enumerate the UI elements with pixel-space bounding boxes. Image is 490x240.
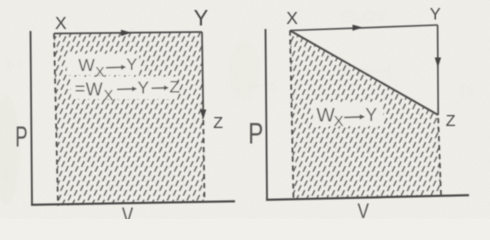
wire: path X to Y (right top edge) (290, 25, 438, 31)
value label W_X->Y (right) (316, 105, 377, 131)
arrow on Y to Z (left) (200, 110, 206, 120)
value label =W_X->Y->Z (left, line 2) (75, 77, 180, 104)
hatched area (right, under diagonal) (290, 31, 441, 199)
label halo (right) (313, 102, 383, 126)
hatched area (left rectangle) (54, 32, 205, 206)
label halo line 1 (left) (67, 54, 139, 75)
wire: dashed drop below Z (left) (203, 120, 204, 202)
label halo line 2 (left) (71, 77, 177, 99)
wire: dashed drop below Z (right) (438, 118, 441, 196)
wire: process Y to Z (left right edge, solid) (202, 32, 203, 117)
wire: dashed isochor X down (left rectangle left edge) (54, 34, 58, 206)
ghost bleed-through text (4, 7, 474, 183)
paper clouding (0, 40, 260, 205)
value label W_X->Y (left, line 1) (78, 55, 137, 79)
arrow on Y to Z (right) (435, 58, 441, 68)
wire: process X to Y (left top edge) (54, 32, 202, 34)
wire: dashed isochor below X (right left edge) (290, 31, 294, 200)
wire: path Y to Z (right right edge, solid) (437, 25, 440, 115)
arrow on X to Y (left) (121, 30, 132, 36)
V axis (right) (266, 195, 469, 200)
P axis (right) (266, 29, 268, 200)
wire: process X to Z diagonal (right) (290, 31, 438, 116)
P axis (left) (31, 31, 33, 205)
arrow on X to Y (right) (353, 25, 364, 31)
V axis (left) (31, 201, 235, 205)
